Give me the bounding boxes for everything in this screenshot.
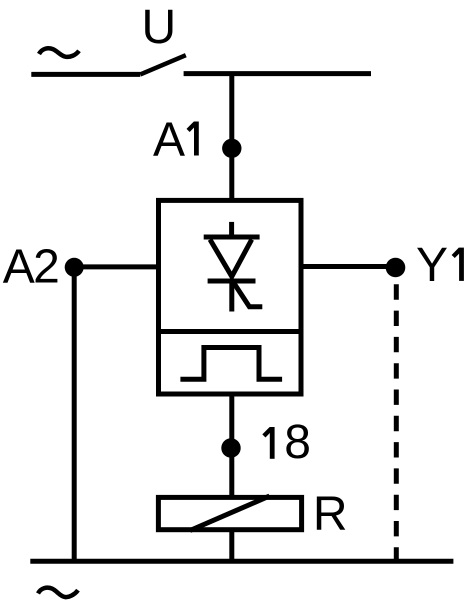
svg-text:2: 2 xyxy=(33,240,60,293)
svg-text:A: A xyxy=(153,114,185,167)
svg-text:Y: Y xyxy=(416,239,448,292)
svg-text:8: 8 xyxy=(284,416,311,469)
svg-text:U: U xyxy=(142,1,177,54)
svg-text:A: A xyxy=(3,240,35,293)
svg-text:R: R xyxy=(313,488,348,541)
